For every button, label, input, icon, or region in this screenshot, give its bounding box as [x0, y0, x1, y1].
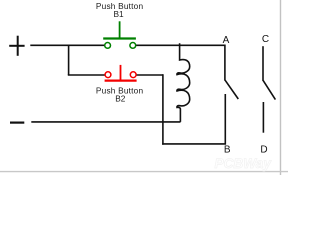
- watermark frame vertical line: [280, 0, 282, 175]
- svg-text:PCBWay: PCBWay: [215, 156, 273, 171]
- switch contact pole C upper wire: [262, 46, 264, 81]
- svg-text:B1: B1: [114, 9, 125, 19]
- push button B1 stem: [119, 21, 121, 38]
- svg-text:B: B: [224, 145, 231, 156]
- wire B2 right contact to corner: [136, 74, 163, 76]
- wire B1 right contact to switch A corner: [136, 44, 226, 46]
- switch B lower wire: [224, 94, 226, 145]
- push button B2 bar: [105, 79, 137, 81]
- push button B1 right contact: [130, 43, 136, 49]
- wire junction branch down to B2 row: [68, 45, 70, 75]
- push button B2 right contact: [130, 72, 136, 78]
- wire - terminal to relay coil bottom: [31, 121, 180, 123]
- bottom rail wire to switch B: [162, 143, 226, 145]
- battery - terminal: [10, 121, 24, 123]
- wire corner down to bottom rail: [162, 74, 164, 145]
- wire branch to B2 left contact: [68, 74, 105, 76]
- push button B1 left contact: [105, 43, 111, 49]
- svg-text:D: D: [260, 144, 267, 155]
- svg-text:C: C: [262, 34, 269, 45]
- push button B2 stem: [120, 65, 122, 81]
- switch contact pole A upper wire: [224, 45, 226, 81]
- switch C blade: [263, 81, 275, 100]
- battery + terminal: [9, 36, 24, 56]
- svg-text:A: A: [223, 35, 230, 46]
- push button B2 left contact: [105, 72, 111, 78]
- relay coil L1: [177, 43, 190, 122]
- svg-text:B2: B2: [115, 94, 126, 104]
- push button B1 bar: [103, 37, 136, 39]
- watermark frame horizontal line: [0, 171, 288, 173]
- wire + to B1 left contact: [30, 44, 105, 46]
- switch A blade: [225, 80, 238, 99]
- switch D lower wire: [262, 102, 264, 133]
